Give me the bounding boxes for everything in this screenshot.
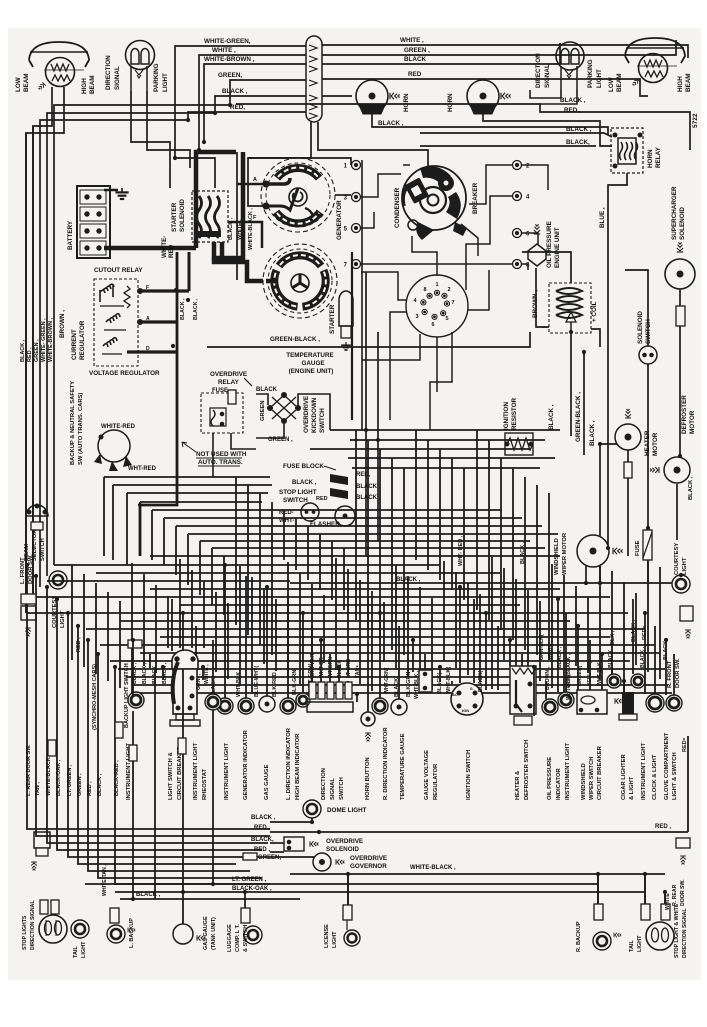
- svg-text:WHITE-BROWN ,: WHITE-BROWN ,: [204, 56, 255, 63]
- svg-text:GAUGE VOLTAGE: GAUGE VOLTAGE: [424, 750, 430, 800]
- wire black to relay 2: [420, 145, 596, 147]
- svg-text:WHT-: WHT-: [279, 518, 294, 524]
- gauge voltage regulator unit: [419, 670, 432, 692]
- dome light: [303, 800, 321, 818]
- stop light switch: [301, 503, 319, 521]
- svg-text:7: 7: [451, 300, 454, 306]
- svg-text:GRN-BLK(: GRN-BLK(: [539, 634, 545, 660]
- svg-text:GREEN ,: GREEN ,: [404, 47, 430, 54]
- svg-text:RED ,: RED ,: [76, 637, 82, 652]
- svg-text:HORN: HORN: [447, 93, 454, 112]
- svg-text:BLACK ,: BLACK ,: [180, 298, 186, 320]
- svg-text:BLACK ,: BLACK ,: [608, 646, 614, 668]
- wire black right: [322, 43, 560, 64]
- heavy cable to starter: [214, 258, 266, 281]
- svg-text:REGULATOR: REGULATOR: [79, 320, 86, 360]
- svg-text:WHITE-RED: WHITE-RED: [101, 424, 136, 430]
- svg-text:GAUGE: GAUGE: [301, 360, 324, 367]
- svg-text:LOW: LOW: [15, 77, 22, 92]
- wire red right: [322, 79, 648, 96]
- svg-text:WHITE ,: WHITE ,: [548, 640, 554, 660]
- svg-text:WHITE-BROWN ,: WHITE-BROWN ,: [48, 318, 54, 362]
- svg-text:RESISTOR: RESISTOR: [511, 397, 518, 430]
- svg-text:WHT-BLK ,: WHT-BLK ,: [236, 668, 242, 697]
- L front door switch: [21, 594, 36, 636]
- L direction indicator lamp: [280, 698, 296, 714]
- svg-text:GAS GAUGE: GAS GAUGE: [264, 764, 270, 800]
- svg-text:WHITE- GREEN ,: WHITE- GREEN ,: [41, 318, 47, 362]
- wire low beam down: [33, 87, 52, 599]
- engine area interconnect wires: [361, 165, 548, 430]
- svg-text:WHT-BLK(: WHT-BLK(: [566, 674, 572, 700]
- svg-text:RED ,: RED ,: [254, 825, 270, 831]
- svg-text:(SYNCHRO-MESH CARS): (SYNCHRO-MESH CARS): [92, 664, 98, 730]
- svg-text:CIGAR LIGHTER: CIGAR LIGHTER: [621, 753, 627, 800]
- generator: [261, 158, 335, 232]
- svg-text:WINDSHIELD: WINDSHIELD: [581, 763, 587, 800]
- instrument light lamp 1: [217, 698, 233, 714]
- license light: [343, 905, 360, 946]
- svg-text:WHITE-BLACK ,: WHITE-BLACK ,: [46, 754, 52, 796]
- svg-text:TAIL: TAIL: [73, 946, 79, 958]
- svg-text:WHITE-: WHITE-: [161, 236, 168, 258]
- vertical drops to instrument row: [133, 565, 674, 716]
- horn 2: [467, 80, 511, 114]
- svg-text:SOLENOID: SOLENOID: [679, 207, 686, 240]
- svg-text:BLACK-OAK ,: BLACK-OAK ,: [232, 886, 272, 892]
- svg-text:GREEN-BLACK ,: GREEN-BLACK ,: [575, 392, 582, 442]
- svg-text:LIGHT: LIGHT: [60, 610, 66, 628]
- main harness band: [26, 126, 672, 695]
- windshield wiper switch circuit breaker: [577, 690, 607, 714]
- svg-text:BLACK ,: BLACK ,: [20, 339, 26, 362]
- svg-text:REGULATOR: REGULATOR: [433, 763, 439, 800]
- svg-text:+ COIL: + COIL: [591, 301, 598, 322]
- svg-text:KICKDOWN: KICKDOWN: [311, 397, 318, 433]
- svg-text:DIRECTION: DIRECTION: [105, 55, 112, 90]
- wire white: [199, 55, 306, 150]
- svg-text:GREEN-BLACK ,: GREEN-BLACK ,: [270, 336, 320, 343]
- svg-text:BLACK ,: BLACK ,: [292, 480, 317, 486]
- svg-text:VOLTAGE REGULATOR: VOLTAGE REGULATOR: [89, 370, 160, 377]
- wire blue vertical: [607, 210, 609, 548]
- svg-text:BLACK ,: BLACK ,: [631, 619, 637, 642]
- svg-text:PARKING: PARKING: [153, 63, 160, 92]
- light switch and circuit breaker: [170, 650, 200, 726]
- horn 1: [356, 80, 400, 114]
- svg-text:SIGNAL: SIGNAL: [544, 64, 551, 88]
- svg-text:BLACK ,: BLACK ,: [222, 88, 248, 95]
- svg-text:STARTER: STARTER: [171, 202, 178, 232]
- svg-text:WHITE-GREEN,: WHITE-GREEN,: [204, 38, 251, 45]
- horn relay: [611, 128, 643, 173]
- svg-text:BLACK(: BLACK(: [478, 671, 484, 692]
- svg-text:RED,: RED,: [230, 104, 245, 111]
- kickdown wires: [256, 394, 268, 405]
- svg-text:DIRECTION: DIRECTION: [321, 768, 327, 800]
- wire mesh staircase center: [104, 430, 560, 660]
- svg-text:OVERDRIVE: OVERDRIVE: [326, 838, 363, 845]
- svg-text:GREEN,: GREEN,: [218, 72, 242, 79]
- svg-text:DIRECTION: DIRECTION: [535, 53, 542, 88]
- svg-text:BEAM: BEAM: [685, 73, 692, 92]
- battery: [77, 186, 110, 258]
- wire to horns black: [322, 95, 352, 97]
- oil pressure engine unit: [528, 224, 546, 266]
- svg-text:RED ,: RED ,: [27, 347, 33, 362]
- svg-text:SIGNAL: SIGNAL: [330, 778, 336, 800]
- svg-text:RED: RED: [168, 244, 175, 258]
- svg-text:BEAM: BEAM: [23, 73, 30, 92]
- svg-text:WHITE ,: WHITE ,: [212, 47, 236, 54]
- wire white-brown: [204, 64, 306, 142]
- cigar lighter and light: [607, 674, 637, 720]
- svg-text:& LIGHT: & LIGHT: [629, 776, 635, 800]
- svg-text:3: 3: [415, 314, 418, 320]
- svg-text:S: S: [470, 686, 473, 691]
- svg-text:INSTRUMENT LIGHT: INSTRUMENT LIGHT: [641, 743, 647, 800]
- svg-text:WHITE: WHITE: [665, 893, 671, 910]
- left lower wire bundle: [27, 565, 270, 884]
- license vertical wire: [347, 874, 349, 905]
- starter solenoid: [192, 191, 228, 242]
- windshield wiper motor: [577, 535, 623, 567]
- svg-text:2: 2: [447, 287, 450, 293]
- instrument light lamp right: [631, 674, 645, 688]
- wire black: [47, 96, 306, 576]
- svg-text:OIL PRESSURE: OIL PRESSURE: [546, 221, 553, 268]
- svg-text:GAS GAUGE: GAS GAUGE: [203, 916, 209, 950]
- svg-text:LUGGAGE: LUGGAGE: [227, 924, 233, 952]
- svg-text:BACKUP & NEUTRAL SAFETY: BACKUP & NEUTRAL SAFETY: [70, 381, 76, 465]
- direction signal switch resistor bank: [307, 682, 353, 712]
- svg-text:PARKING: PARKING: [587, 59, 594, 88]
- inline connectors lower area: [48, 740, 56, 756]
- svg-text:SOLENOID: SOLENOID: [637, 311, 644, 344]
- svg-text:DIRECTION SIGNAL: DIRECTION SIGNAL: [30, 900, 36, 950]
- svg-text:DOME LIGHT: DOME LIGHT: [327, 807, 367, 814]
- svg-text:AC: AC: [452, 692, 458, 697]
- svg-text:BLK-GRN(: BLK-GRN(: [292, 668, 298, 695]
- svg-text:LIGHT SWITCH &: LIGHT SWITCH &: [168, 752, 174, 800]
- svg-text:1: 1: [435, 282, 438, 288]
- svg-text:BLACK ,: BLACK ,: [193, 298, 199, 320]
- horn button: [361, 712, 375, 741]
- long black wire to courtesy light: [290, 582, 672, 584]
- terminal bullets column right 2 4 6 8: [513, 161, 522, 170]
- svg-text:BLACK ,: BLACK ,: [136, 892, 161, 898]
- svg-text:WHT-RED: WHT-RED: [128, 466, 157, 472]
- svg-text:IGN: IGN: [462, 708, 469, 713]
- svg-text:LIGHT: LIGHT: [332, 931, 338, 948]
- tail light left: [71, 920, 89, 938]
- temperature gauge unit: [391, 699, 407, 715]
- svg-text:OVERDRIVE: OVERDRIVE: [303, 396, 310, 433]
- bulkhead connector: [306, 36, 322, 122]
- wire from solenoid to generator area: [236, 152, 238, 280]
- svg-text:R. FRONT: R. FRONT: [667, 660, 673, 688]
- svg-text:BLACK ,: BLACK ,: [548, 404, 555, 430]
- svg-text:TAN ,: TAN ,: [35, 782, 41, 796]
- svg-text:MOTOR: MOTOR: [652, 432, 659, 456]
- svg-text:OIL PRESSURE: OIL PRESSURE: [547, 757, 553, 800]
- wire white right: [322, 45, 688, 58]
- svg-text:RELAY: RELAY: [655, 146, 662, 168]
- svg-text:DIRECTION SIGNAL: DIRECTION SIGNAL: [682, 908, 688, 958]
- svg-text:BLUE-WHT(: BLUE-WHT(: [254, 666, 260, 697]
- svg-text:FUSE: FUSE: [635, 540, 641, 556]
- svg-text:RHEOSTAT: RHEOSTAT: [202, 769, 208, 800]
- svg-text:BREAKER: BREAKER: [472, 182, 479, 214]
- coil wires: [536, 268, 549, 327]
- svg-text:6: 6: [431, 322, 434, 328]
- svg-text:BLK-RED ,: BLK-RED ,: [272, 669, 278, 697]
- svg-text:SOLENOID: SOLENOID: [326, 846, 359, 853]
- svg-text:TAIL: TAIL: [629, 940, 635, 952]
- svg-text:IGNITION: IGNITION: [503, 402, 510, 430]
- svg-text:WHT-GRN(: WHT-GRN(: [384, 667, 390, 694]
- supercharger resistor: [679, 289, 681, 306]
- distributor: [402, 166, 467, 240]
- svg-text:WHITE-TAN ,: WHITE-TAN ,: [102, 864, 108, 896]
- svg-text:CUTOUT RELAY: CUTOUT RELAY: [94, 267, 143, 274]
- svg-text:MOTOR: MOTOR: [689, 410, 696, 434]
- svg-text:SWITCH: SWITCH: [319, 408, 326, 433]
- heavy regulator wires: [140, 289, 189, 292]
- svg-text:RED‣: RED‣: [682, 736, 688, 752]
- svg-text:R. BACKUP: R. BACKUP: [576, 921, 582, 952]
- svg-text:LT. GREEN ,: LT. GREEN ,: [232, 877, 267, 883]
- direction signal lamp left: [126, 41, 155, 92]
- left rear door switch: [31, 832, 50, 870]
- svg-text:BLACK ,: BLACK ,: [251, 815, 276, 821]
- generator indicator lamp: [238, 698, 254, 714]
- svg-text:BLACK ,: BLACK ,: [142, 662, 148, 684]
- svg-text:INSTRUMENT LIGHT: INSTRUMENT LIGHT: [565, 743, 571, 800]
- svg-text:BLACK ,: BLACK ,: [396, 577, 421, 583]
- svg-text:L. BACKUP: L. BACKUP: [129, 918, 135, 948]
- clock and light: [646, 694, 664, 712]
- svg-text:BEAM: BEAM: [616, 73, 623, 92]
- instrument light rheostat lamp: [205, 694, 221, 710]
- svg-text:FUSE: FUSE: [212, 388, 228, 394]
- instrument light lamp mid: [558, 692, 574, 708]
- right rear door switch: [676, 838, 690, 864]
- svg-text:HORN: HORN: [403, 93, 410, 112]
- svg-text:LICENSE: LICENSE: [324, 924, 330, 948]
- svg-text:DOOR SW.: DOOR SW.: [675, 658, 681, 688]
- right tail stop lamp: [641, 904, 674, 950]
- svg-text:SWITCH: SWITCH: [339, 777, 345, 800]
- bottom left lamps: stop lights direction signal: [39, 900, 67, 943]
- backup and neutral safety switch: [94, 430, 132, 471]
- svg-text:BROWN ,: BROWN ,: [59, 310, 66, 338]
- fuse right: [643, 530, 652, 560]
- svg-text:(ENGINE UNIT): (ENGINE UNIT): [289, 368, 334, 375]
- wire green right: [322, 40, 676, 55]
- R front door switch connector: [680, 606, 693, 638]
- coil feed verticals: [570, 332, 572, 436]
- svg-text:IGNITION SWITCH: IGNITION SWITCH: [466, 750, 472, 800]
- svg-text:BLACK-OAK ,: BLACK-OAK ,: [56, 759, 62, 796]
- svg-text:INSTRUMENT LIGHT: INSTRUMENT LIGHT: [224, 743, 230, 800]
- svg-text:WHITE ,: WHITE ,: [400, 37, 424, 44]
- ignition resistor: [505, 433, 533, 455]
- svg-text:WHT- RED ,: WHT- RED ,: [458, 535, 464, 566]
- svg-text:BLUE ,: BLUE ,: [599, 207, 606, 228]
- svg-text:AUTO. TRANS.: AUTO. TRANS.: [198, 459, 243, 466]
- svg-text:LIGHT: LIGHT: [162, 73, 169, 92]
- svg-text:FUSE BLOCK: FUSE BLOCK: [283, 463, 324, 470]
- svg-text:HIGH: HIGH: [81, 78, 88, 94]
- svg-text:BLACK: BLACK: [256, 387, 278, 393]
- svg-text:COURTESY: COURTESY: [674, 543, 680, 575]
- svg-text:RELAY: RELAY: [218, 379, 240, 386]
- svg-text:LT. GREEN ,: LT. GREEN ,: [67, 764, 73, 796]
- horn ground wire black: [372, 114, 608, 135]
- wire black to relay: [420, 133, 612, 137]
- svg-text:OVERDRIVE: OVERDRIVE: [210, 371, 247, 378]
- connector bottom wires down: [248, 122, 311, 158]
- svg-text:RED ,: RED ,: [564, 107, 581, 114]
- svg-text:5: 5: [445, 316, 448, 322]
- svg-text:GREEN ,: GREEN ,: [77, 773, 83, 796]
- svg-text:INSTRUMENT LIGHT: INSTRUMENT LIGHT: [193, 743, 199, 800]
- verticals instrument row to bottom: [133, 669, 688, 924]
- svg-text:HEATER &: HEATER &: [515, 771, 521, 800]
- svg-text:CIRCUIT BREAKER: CIRCUIT BREAKER: [597, 745, 603, 800]
- svg-text:LIGHT & SWITCH: LIGHT & SWITCH: [672, 752, 678, 800]
- svg-text:GRN-WHT: GRN-WHT: [310, 652, 316, 678]
- svg-text:RED ,: RED ,: [254, 847, 270, 853]
- svg-text:SOLENOID: SOLENOID: [179, 199, 186, 232]
- luggage compartment lamp: [241, 908, 262, 944]
- svg-text:ENGINE UNIT: ENGINE UNIT: [554, 227, 561, 268]
- terminal bullets column left 1 3 5 7: [352, 161, 361, 170]
- svg-text:NOT USED WITH: NOT USED WITH: [196, 451, 247, 458]
- svg-text:HIGH BEAM INDICATOR: HIGH BEAM INDICATOR: [295, 733, 301, 800]
- svg-text:HORN BUTTON: HORN BUTTON: [365, 757, 371, 800]
- svg-text:BLACK,: BLACK,: [251, 837, 274, 843]
- svg-text:WHT-BR: WHT-BR: [319, 657, 325, 678]
- ignition switch: [451, 683, 483, 715]
- svg-text:WIPER SWITCH: WIPER SWITCH: [589, 757, 595, 800]
- svg-text:R. REAR: R. REAR: [672, 884, 678, 906]
- glove compartment light: [666, 695, 682, 711]
- svg-text:TEMPERATURE: TEMPERATURE: [286, 352, 333, 359]
- heavy vertical pair mid: [351, 252, 353, 420]
- svg-text:GREEN,: GREEN,: [258, 855, 281, 861]
- svg-text:SWITCH: SWITCH: [283, 497, 308, 504]
- svg-text:RED: RED: [316, 496, 328, 502]
- courtesy light right: [672, 575, 690, 593]
- heater motor wires: [600, 444, 617, 541]
- svg-text:GENERATOR: GENERATOR: [336, 200, 343, 240]
- R backup lamp: [593, 904, 621, 950]
- heater defroster switch: [510, 666, 536, 725]
- wire green: [54, 80, 306, 565]
- heavy leads from solenoid up: [196, 152, 236, 248]
- wires solenoid switch: [625, 270, 648, 346]
- L backup lamp: [107, 908, 135, 943]
- svg-text:STOP LIGHTS: STOP LIGHTS: [22, 915, 28, 950]
- svg-text:BLACK,: BLACK,: [566, 139, 590, 146]
- svg-text:& SWITCH: & SWITCH: [243, 925, 249, 952]
- svg-text:BLACK ,: BLACK ,: [589, 420, 596, 446]
- svg-text:BLACK ,: BLACK ,: [228, 217, 234, 240]
- svg-text:LIGHT: LIGHT: [637, 935, 643, 952]
- svg-text:5722: 5722: [692, 113, 699, 128]
- courtesy light left: [49, 571, 67, 589]
- long verticals mid-right: [365, 272, 367, 556]
- svg-text:HORN: HORN: [647, 149, 654, 168]
- svg-text:STOP LIGHT: STOP LIGHT: [279, 489, 317, 496]
- overdrive kickdown switch: [268, 393, 301, 424]
- svg-text:HEATER: HEATER: [644, 430, 651, 456]
- headlamp right (low/high beam): [625, 38, 685, 87]
- svg-text:RED: RED: [408, 71, 422, 78]
- svg-text:BLACK ,: BLACK ,: [97, 773, 103, 796]
- svg-text:(TANK UNIT): (TANK UNIT): [211, 917, 217, 950]
- svg-text:BEAM: BEAM: [89, 75, 96, 94]
- svg-text:WINDSHIELD: WINDSHIELD: [554, 538, 560, 575]
- svg-text:8: 8: [423, 287, 426, 293]
- svg-text:RED ,: RED ,: [87, 781, 93, 796]
- svg-text:BLACK ,: BLACK ,: [560, 97, 586, 104]
- svg-text:BLACK-RED ,: BLACK-RED ,: [114, 760, 120, 796]
- svg-text:GREEN ,: GREEN ,: [34, 339, 40, 362]
- svg-text:GRN- ,: GRN- ,: [196, 673, 202, 690]
- svg-text:RED ,: RED ,: [655, 824, 671, 830]
- wires right to horn relay black/red: [236, 104, 690, 150]
- R direction indicator lamp: [372, 698, 388, 714]
- svg-text:LIGHT: LIGHT: [682, 557, 688, 575]
- svg-text:WIPER MOTOR: WIPER MOTOR: [562, 532, 568, 575]
- svg-text:BATTERY: BATTERY: [67, 220, 74, 250]
- direction signal right stem wires: [530, 89, 561, 98]
- gas gauge unit: [259, 696, 275, 712]
- wire direction signal down: [131, 91, 170, 188]
- instrument light lamp far left: [128, 692, 144, 708]
- battery ground: [104, 189, 118, 192]
- svg-text:DEFROSTER SWITCH: DEFROSTER SWITCH: [524, 740, 530, 800]
- svg-text:STOP LIGHT & WHITE: STOP LIGHT & WHITE: [674, 903, 680, 958]
- svg-text:BLK-GRN‣: BLK-GRN‣: [406, 668, 412, 697]
- ignition coil: [549, 283, 591, 333]
- svg-text:A: A: [253, 177, 257, 183]
- wire white-green: [175, 46, 306, 188]
- svg-text:HIGH: HIGH: [677, 76, 684, 92]
- starter motor: [263, 244, 337, 318]
- svg-text:LT-GRN: LT-GRN: [346, 659, 352, 678]
- overdrive relay output wires: [212, 433, 214, 477]
- svg-text:STARTER: STARTER: [329, 304, 336, 334]
- generator field wires: [237, 183, 263, 186]
- direction signal lamp right: [556, 42, 584, 89]
- solenoid switch: [639, 346, 657, 364]
- relay output wire down: [608, 173, 627, 210]
- svg-text:CURRENT: CURRENT: [71, 329, 78, 360]
- backup light switch connector: [128, 640, 142, 648]
- svg-text:L. REAR DOOR SW.: L. REAR DOOR SW.: [26, 744, 32, 796]
- wire red: [40, 112, 306, 587]
- svg-text:WHT-BLK(: WHT-BLK(: [446, 667, 452, 694]
- right verticals to bottom lamps: [644, 874, 646, 904]
- svg-text:L. FRONT: L. FRONT: [20, 557, 26, 584]
- svg-text:GENERATOR INDICATOR: GENERATOR INDICATOR: [243, 729, 249, 800]
- supercharger solenoid: [665, 242, 695, 289]
- heater motor: [615, 409, 641, 450]
